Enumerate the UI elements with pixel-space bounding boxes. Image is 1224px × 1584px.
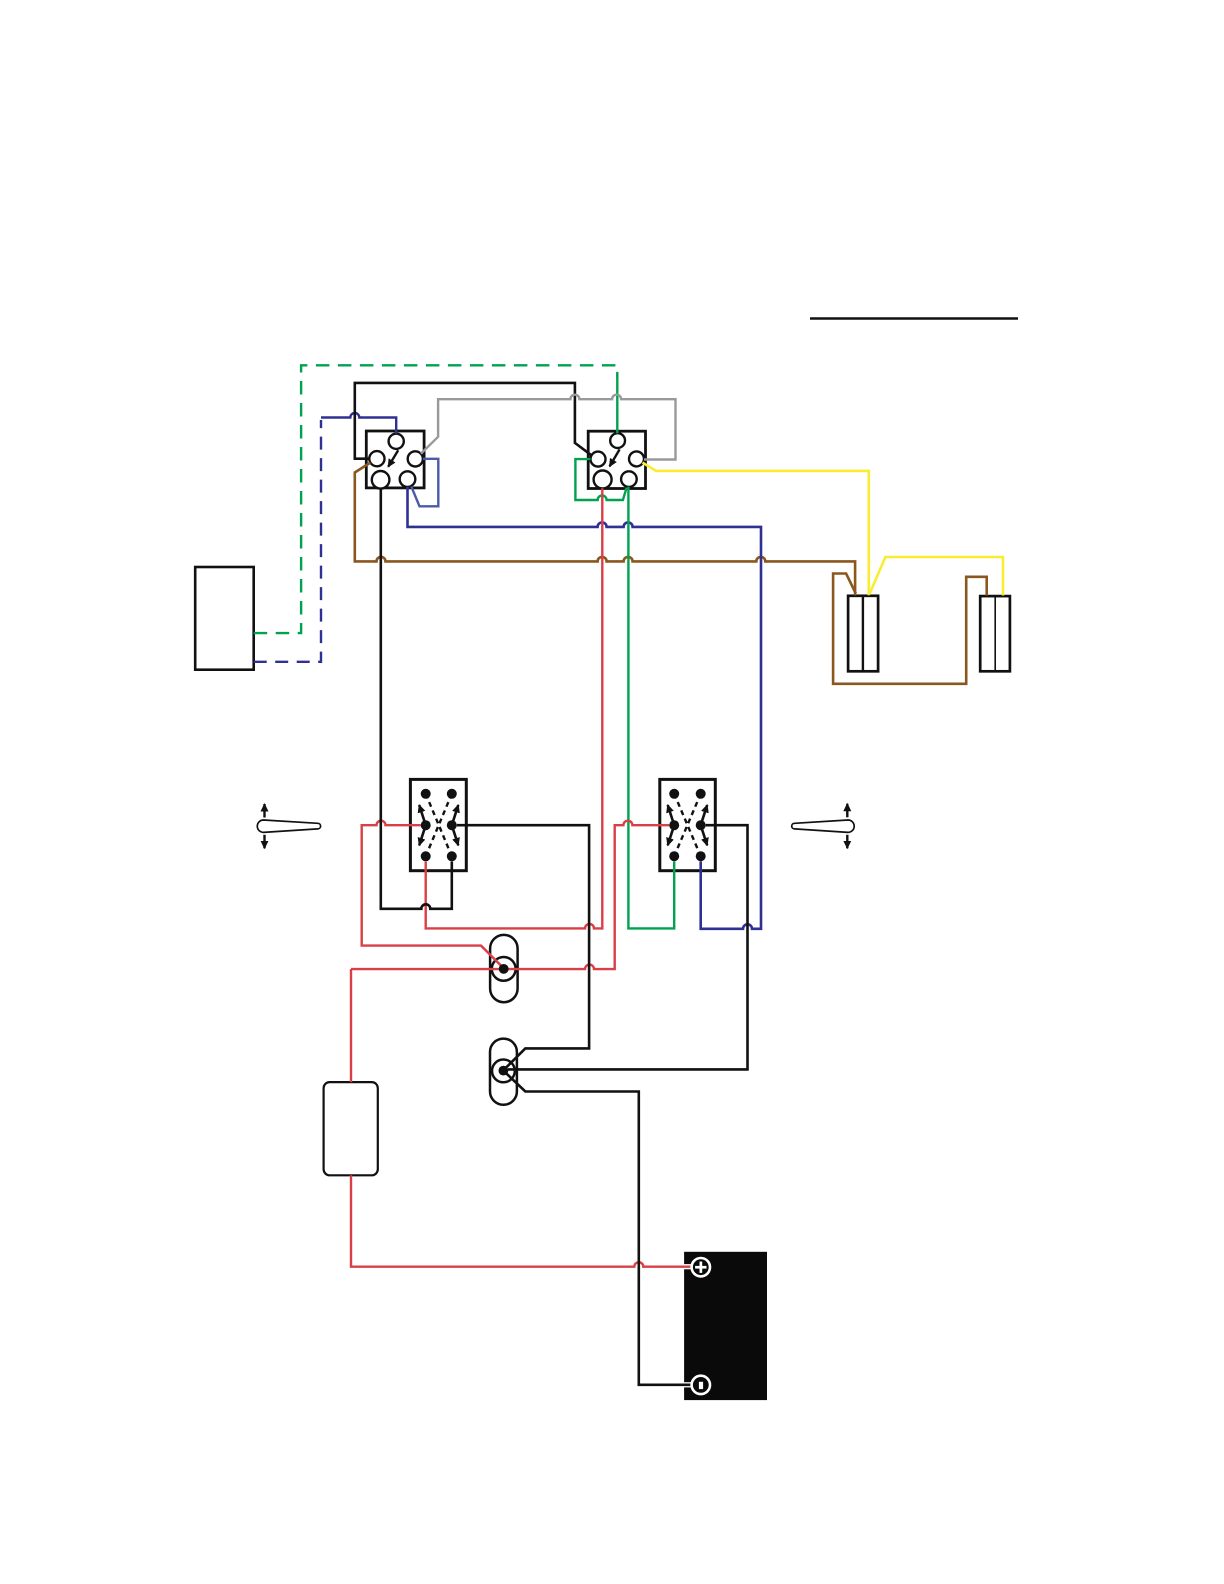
red wire relay K1 to motor M2 bbox=[362, 821, 503, 968]
title underline bbox=[810, 317, 1018, 319]
black wire SW1 to relay K1 bbox=[381, 488, 452, 908]
wire casing at battery plus bbox=[683, 1264, 693, 1269]
switch SW1 bbox=[366, 431, 424, 489]
motor M2 terminal dot bbox=[499, 964, 509, 974]
red wire motor M2 row to relay K2 bbox=[351, 821, 669, 969]
lever icon right bbox=[792, 804, 855, 849]
module box M1 bbox=[195, 567, 254, 670]
circuit breaker CB2 bbox=[980, 596, 1010, 671]
circuit breaker CB1 bbox=[848, 596, 878, 672]
fuse F1 bbox=[324, 1082, 378, 1175]
green wire SW2 loop bbox=[575, 459, 626, 500]
brown wire SW1 to CB1 bbox=[355, 463, 855, 596]
black wire motor M3 to battery minus bbox=[505, 1072, 693, 1385]
motor M3 terminal dot bbox=[499, 1066, 509, 1076]
switch SW2 bbox=[588, 431, 645, 488]
red wire fuse to battery plus bbox=[351, 969, 693, 1267]
blue wire SW1 loop bbox=[411, 459, 438, 507]
green wire into SW2 top bbox=[616, 374, 618, 433]
gray wire SW1 to SW2 bbox=[421, 395, 676, 460]
motor M3 body bbox=[490, 1039, 517, 1105]
relay K1 bbox=[410, 779, 466, 870]
red wire SW2 to relay K1 bbox=[426, 488, 603, 928]
yellow wire SW2 to CB1 bbox=[643, 463, 869, 596]
wire casing at battery minus bbox=[683, 1382, 693, 1387]
green dashed wire module to SW2 bbox=[254, 365, 618, 633]
relay K2 bbox=[660, 779, 716, 870]
navy dashed wire module to SW1 bbox=[254, 420, 321, 662]
navy wire SW1 to relay K2 bbox=[408, 487, 762, 929]
battery minus terminal bbox=[692, 1376, 710, 1394]
lever icon left bbox=[257, 804, 320, 848]
motor M2 body bbox=[490, 935, 517, 1002]
brown wire CB1 to CB2 bbox=[833, 574, 987, 684]
battery plus terminal bbox=[692, 1258, 710, 1276]
black wire SW1 to SW2 bbox=[355, 383, 591, 459]
navy wire into SW1 top bbox=[321, 413, 396, 434]
black wire relay K2 to motor M3 bbox=[508, 825, 748, 1069]
relay K1 contact dots bbox=[421, 789, 457, 862]
battery B1 body bbox=[684, 1252, 767, 1400]
black wire relay K1 to motor M3 bbox=[457, 825, 589, 1069]
relay K2 contact dots bbox=[669, 789, 706, 861]
yellow wire CB1 to CB2 bbox=[870, 557, 1003, 596]
green wire SW2 to relay K2 bbox=[628, 487, 674, 929]
